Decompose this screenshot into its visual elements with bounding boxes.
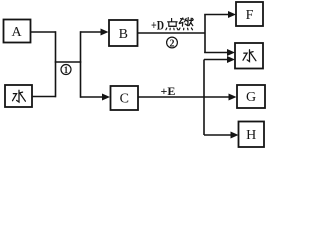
glyph ran (179, 18, 193, 30)
box H (239, 122, 265, 148)
svg-text:H: H (246, 128, 256, 143)
svg-text:B: B (119, 27, 128, 42)
wire A to left junction (31, 31, 56, 33)
wire arrow to C (81, 94, 111, 101)
wire right vertical bus (80, 31, 82, 98)
wire arrow to B (81, 29, 109, 36)
svg-text:1: 1 (64, 65, 69, 75)
wire arrow to H (204, 132, 239, 139)
box C (111, 86, 139, 110)
box B (109, 20, 138, 46)
wire arrow to water-right upper (204, 49, 235, 56)
wire B to right bus (reaction 2) (138, 32, 206, 34)
wire junction horizontal (reaction 1) (55, 61, 82, 63)
label circled 1 (61, 65, 71, 76)
wire water-left to left junction (32, 96, 56, 98)
wire right bus lower (branch of reaction 3) (203, 60, 205, 136)
svg-text:F: F (246, 8, 254, 23)
wire C to G (reaction 3) (138, 94, 237, 101)
label +D dianran (ignite) (151, 17, 193, 32)
box water-right (235, 43, 263, 69)
svg-text:G: G (246, 90, 256, 105)
wire arrow to water-right lower (204, 56, 235, 63)
wire left vertical bus (55, 31, 57, 97)
box F (236, 2, 263, 26)
svg-text:2: 2 (170, 38, 175, 49)
wire right bus upper (branch of reaction 2) (204, 15, 206, 54)
wire arrow to F (204, 11, 236, 18)
box water-left (5, 85, 32, 107)
label circled 2 (167, 37, 178, 49)
svg-text:+D: +D (151, 17, 164, 32)
box A (4, 20, 31, 43)
svg-text:A: A (12, 25, 23, 40)
svg-text:+E: +E (161, 84, 176, 98)
svg-text:C: C (120, 92, 129, 107)
box G (237, 85, 265, 108)
glyph dian (166, 18, 178, 30)
